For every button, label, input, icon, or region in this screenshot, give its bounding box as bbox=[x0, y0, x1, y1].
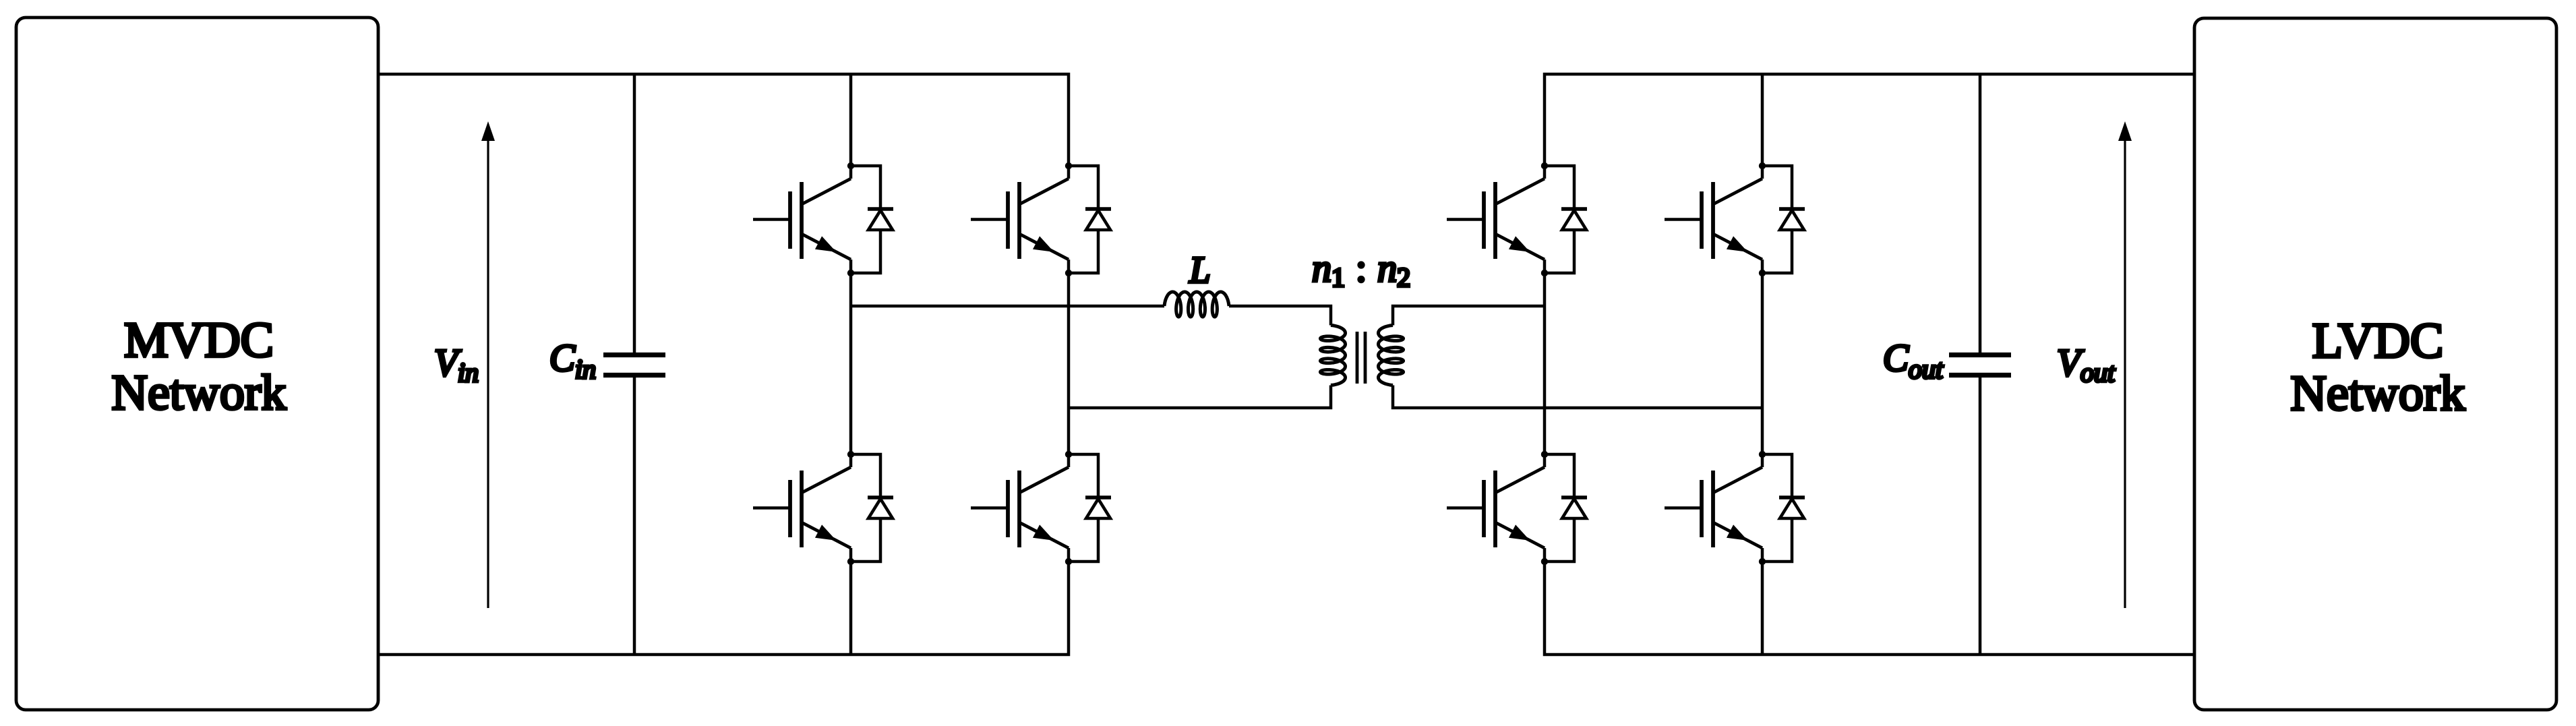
transformer primary winding n1 bbox=[1321, 326, 1346, 386]
wire: left leg1 bbox=[849, 74, 853, 166]
svg-text:LVDC: LVDC bbox=[2312, 313, 2444, 369]
wire: right leg1 mid bbox=[1543, 273, 1547, 454]
MVDC Network box bbox=[16, 18, 378, 710]
capacitor Cin bbox=[633, 74, 636, 353]
transistor Q1 (IGBT, left bridge leg1 top) with diode D1 bbox=[753, 162, 893, 276]
transistor Q3 (IGBT, left bridge leg2 top) with diode D3 bbox=[971, 162, 1111, 276]
svg-text:Network: Network bbox=[112, 365, 287, 421]
transistor Q6 (IGBT, right bridge leg1 bottom) with diode D6 bbox=[1447, 451, 1587, 565]
wire: primary top tap bbox=[851, 305, 1164, 308]
transformer secondary winding n2 bbox=[1379, 326, 1404, 386]
svg-text:L: L bbox=[1189, 249, 1210, 291]
svg-text:MVDC: MVDC bbox=[124, 313, 274, 368]
wire: left bottom bus bbox=[378, 562, 1069, 655]
wire: left top bus bbox=[378, 74, 1069, 166]
svg-text:Network: Network bbox=[2291, 366, 2465, 421]
wire: right top bus bbox=[1545, 74, 2194, 166]
inductor L bbox=[1164, 292, 1229, 317]
wire: secondary top tap bbox=[1393, 306, 1545, 326]
svg-text:n1:n2: n1:n2 bbox=[1312, 246, 1410, 293]
transistor Q4 (IGBT, left bridge leg2 bottom) with diode D4 bbox=[971, 451, 1111, 565]
wire: right bottom bus bbox=[1545, 562, 2194, 655]
transistor Q7 (IGBT, right bridge leg2 top) with diode D7 bbox=[1665, 162, 1805, 276]
wire: right leg2 bbox=[1761, 74, 1764, 166]
transistor Q2 (IGBT, left bridge leg1 bottom) with diode D2 bbox=[753, 451, 893, 565]
wire: secondary bottom tap bbox=[1393, 386, 1762, 409]
wire: primary bottom tap bbox=[1069, 386, 1331, 409]
transistor Q8 (IGBT, right bridge leg2 bottom) with diode D8 bbox=[1665, 451, 1805, 565]
Vin arrow bbox=[487, 139, 489, 608]
Vout arrow bbox=[2124, 139, 2126, 608]
transformer core bbox=[1356, 332, 1359, 384]
LVDC Network box bbox=[2194, 18, 2556, 710]
wire: inductor to transformer primary bbox=[1229, 306, 1331, 326]
capacitor Cout bbox=[1979, 74, 1982, 353]
transistor Q5 (IGBT, right bridge leg1 top) with diode D5 bbox=[1447, 162, 1587, 276]
wire: left leg2 mid bbox=[1067, 273, 1071, 454]
